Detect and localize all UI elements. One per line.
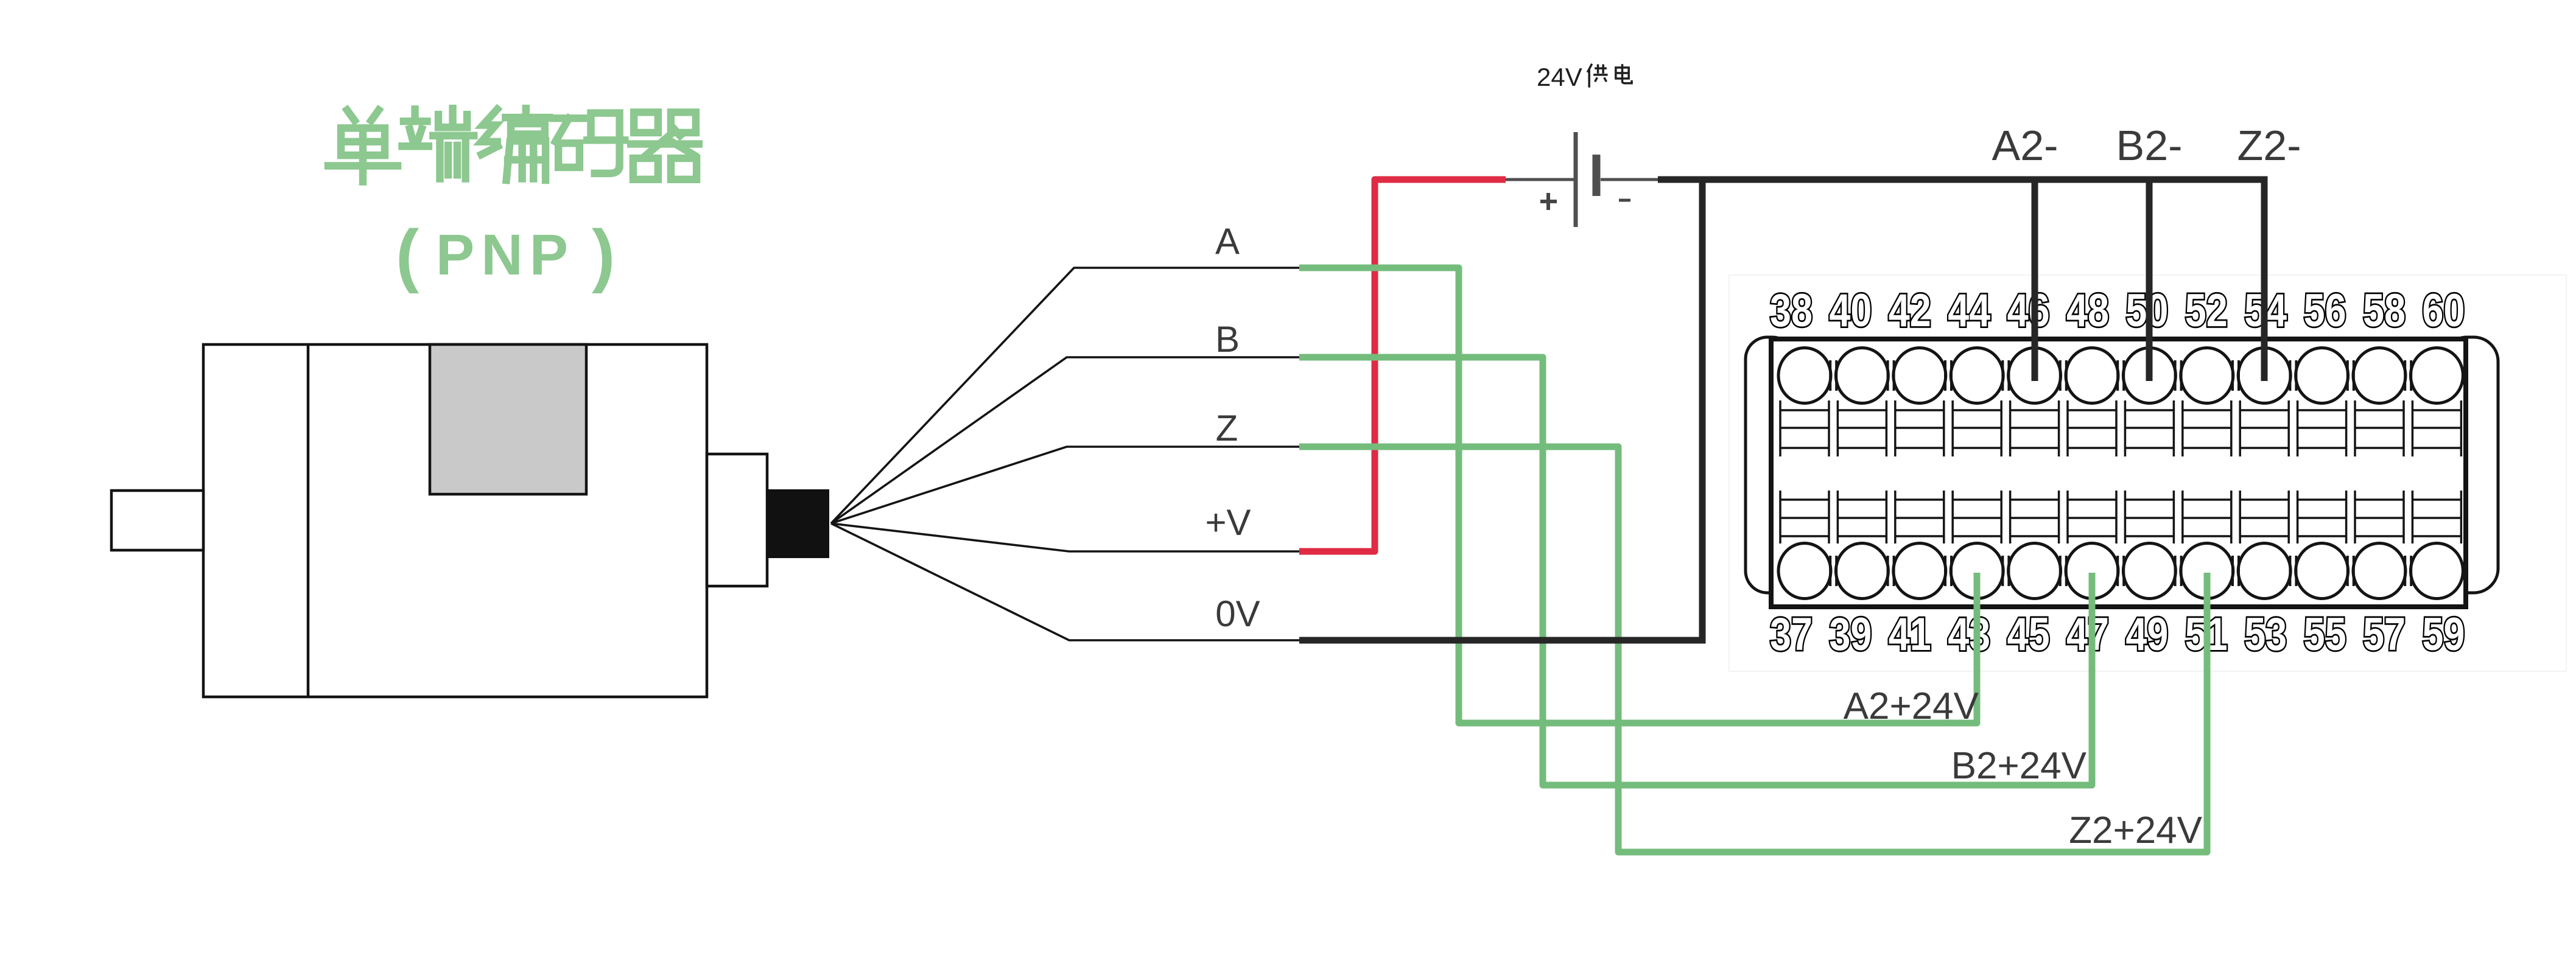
battery negative plate (short thick) bbox=[1593, 155, 1601, 196]
svg-text:45: 45 bbox=[2007, 609, 2050, 660]
terminal block right ear bbox=[2443, 337, 2498, 593]
battery label 供电 glyphs bbox=[1587, 64, 1632, 88]
encoder rear flange bbox=[707, 454, 767, 586]
wire +V lead from connector bbox=[831, 523, 1300, 551]
clamp ladders top row bbox=[1780, 400, 2461, 456]
pin numbers bottom row 37-59 bbox=[1770, 609, 2465, 660]
cable connector (black) bbox=[767, 489, 829, 558]
terminal block left ear bbox=[1746, 337, 1794, 593]
svg-text:37: 37 bbox=[1770, 609, 1813, 660]
svg-text:+V: +V bbox=[1205, 502, 1251, 543]
battery minus sign bbox=[1619, 199, 1630, 202]
svg-text:53: 53 bbox=[2244, 609, 2287, 660]
svg-text:57: 57 bbox=[2363, 609, 2406, 660]
svg-text:46: 46 bbox=[2007, 285, 2050, 337]
black 0V wire from battery minus bbox=[1299, 176, 1702, 640]
encoder front cap divider bbox=[307, 344, 310, 697]
battery plus sign bbox=[1540, 193, 1557, 210]
svg-text:41: 41 bbox=[1889, 609, 1931, 660]
svg-text:A2+24V: A2+24V bbox=[1844, 685, 1979, 727]
svg-text:0V: 0V bbox=[1215, 593, 1260, 634]
svg-text:B2+24V: B2+24V bbox=[1951, 745, 2087, 787]
svg-text:A2-: A2- bbox=[1992, 122, 2058, 169]
terminal block main frame bbox=[1771, 339, 2466, 607]
wire A lead from connector bbox=[831, 268, 1300, 523]
svg-text:Z2-: Z2- bbox=[2237, 122, 2301, 169]
svg-text:PNP: PNP bbox=[436, 223, 575, 287]
svg-text:Z: Z bbox=[1216, 408, 1238, 449]
svg-text:48: 48 bbox=[2066, 285, 2109, 337]
svg-text:B2-: B2- bbox=[2116, 122, 2183, 169]
terminal contact circles bottom row (37-59) bbox=[1778, 543, 2463, 599]
svg-text:(: ( bbox=[396, 216, 419, 294]
inter-circle bridges top row bbox=[1830, 360, 2411, 391]
svg-text:38: 38 bbox=[1770, 285, 1813, 337]
pin numbers top row 38-60 bbox=[1770, 285, 2465, 337]
terminal block image area bbox=[1729, 275, 2566, 671]
black drop A2- (terminal 46) bbox=[2032, 180, 2038, 381]
svg-text:40: 40 bbox=[1829, 285, 1872, 337]
title (PNP) green heading line 2 bbox=[396, 216, 615, 294]
battery positive plate (long) bbox=[1574, 132, 1578, 227]
encoder shaft bbox=[111, 491, 203, 550]
svg-text:B: B bbox=[1215, 319, 1240, 360]
svg-text:44: 44 bbox=[1948, 285, 1990, 337]
red wire +V to battery plus bbox=[1299, 180, 1506, 551]
svg-text:): ) bbox=[592, 216, 615, 294]
svg-text:43: 43 bbox=[1948, 609, 1990, 660]
black bus battery minus to Z2- (terminal 54) bbox=[1658, 180, 2264, 381]
svg-text:42: 42 bbox=[1889, 285, 1931, 337]
green wire A to terminal 43 (A2+24V) bbox=[1299, 268, 1977, 723]
encoder motor body bbox=[203, 344, 707, 697]
battery positive lead bbox=[1504, 178, 1574, 181]
inter-circle bridges bottom row bbox=[1830, 556, 2411, 586]
encoder gray label plate bbox=[430, 344, 586, 494]
svg-text:60: 60 bbox=[2422, 285, 2465, 337]
wire 0V lead from connector bbox=[831, 523, 1300, 640]
battery negative lead bbox=[1601, 178, 1659, 181]
terminal contact circles top row (38-60) bbox=[1778, 348, 2463, 404]
svg-text:55: 55 bbox=[2304, 609, 2346, 660]
black drop B2- (terminal 50) bbox=[2146, 180, 2153, 381]
svg-text:24V: 24V bbox=[1537, 63, 1582, 91]
svg-text:59: 59 bbox=[2422, 609, 2465, 660]
svg-text:Z2+24V: Z2+24V bbox=[2069, 809, 2203, 851]
green wire B to terminal 47 (B2+24V) bbox=[1299, 357, 2092, 785]
svg-text:47: 47 bbox=[2066, 609, 2109, 660]
svg-text:39: 39 bbox=[1829, 609, 1872, 660]
wire B lead from connector bbox=[831, 357, 1300, 523]
green wire Z to terminal 51 (Z2+24V) bbox=[1299, 447, 2207, 852]
svg-text:49: 49 bbox=[2125, 609, 2168, 660]
clamp ladders bottom row bbox=[1780, 491, 2461, 543]
svg-text:52: 52 bbox=[2185, 285, 2228, 337]
wire Z lead from connector bbox=[831, 447, 1300, 523]
svg-text:A: A bbox=[1215, 221, 1240, 262]
svg-text:56: 56 bbox=[2304, 285, 2346, 337]
svg-text:58: 58 bbox=[2363, 285, 2406, 337]
title 单端编码器 (green heading line 1) bbox=[328, 108, 699, 181]
